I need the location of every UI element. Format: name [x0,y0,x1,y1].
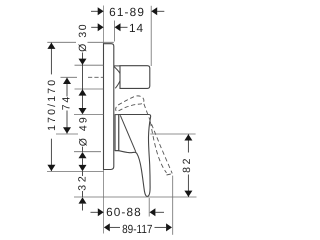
top extension line (dashed lever grip top) [150,133,195,135]
dimension line lower segment [187,175,189,197]
right tail [121,26,128,28]
svg-text:74: 74 [60,97,72,111]
right extension line (dashed lever tip front) [172,176,174,235]
hub neck top edge [114,66,120,74]
connector line below arrow [82,158,84,166]
dashed lever tip end (swung down position) [167,174,173,175]
down arrow [63,127,71,133]
plate bottom extension line (170/170 bottom and 32 top) [47,170,104,172]
lever underside edge at base [115,150,119,152]
dimension line upper segment [66,78,68,97]
connector line [82,147,84,152]
dashed lever tip (swung up position) [116,96,144,111]
connector below text [82,191,84,197]
svg-text:Ø 49: Ø 49 [77,117,89,146]
dimension 170/170 (left) [46,43,58,172]
tail below arrow [82,204,84,211]
dimension 89-117 (bottom) [104,176,173,237]
svg-text:61-89: 61-89 [109,5,144,19]
wall line (back of escutcheon plate, also extension line for wall-referenced dims) [103,6,105,234]
svg-text:14: 14 [129,21,143,35]
right arrow [150,208,156,216]
down arrow [47,165,55,171]
up arrow [47,43,55,49]
up arrow [63,78,71,84]
svg-text:170/170: 170/170 [46,80,58,131]
dimension line upper segment [187,134,189,152]
right arrow [151,7,157,15]
bottom extension line [56,133,78,135]
right tail [155,211,164,213]
hub neck bottom edge [115,81,120,88]
hub centerline (dash) with 74-dim top extension [61,76,78,78]
left arrow [98,7,104,15]
left tail [91,211,99,213]
dimension line lower segment [66,111,68,134]
dimension 14 (top) [91,21,143,42]
svg-text:Ø 30: Ø 30 [77,24,89,52]
left tail [91,26,98,28]
dimension 74 (left) [56,78,78,134]
left line segment [110,226,120,228]
lever base bar on plate [115,115,119,151]
extension line at plate front [113,21,115,42]
escutcheon wall plate (side view) [104,44,114,170]
left arrow [98,23,104,31]
bottom extension line (lever tip bottom, continuous to 82-dim) [74,196,197,198]
handle hub cylinder (side view) [120,66,150,89]
left arrow (points left) [104,223,110,231]
plate top extension line (170/170 top) [47,41,76,43]
dimension dia 49 (left column) [74,108,104,167]
lever handle (solid, closed position) [119,115,151,197]
right arrow [115,23,121,31]
connector above text [82,171,84,176]
dimension line lower segment [50,139,52,171]
dimension 61-89 (top) [91,5,164,66]
svg-text:60-88: 60-88 [106,205,141,219]
bottom extension line (lever base bottom) [74,151,101,153]
right line segment [155,226,167,228]
up arrow [184,134,192,140]
up arrow (outside below) [79,152,87,158]
left tail [91,10,98,12]
dimension 32 (left column) [74,165,197,211]
svg-text:32: 32 [77,176,89,191]
right extension line (lever tip front) [148,198,150,217]
extension line hub top (dia 30) [75,64,104,66]
down arrow (outside above, tip on 171.4 line) [79,165,87,171]
extension line at cylinder front [150,6,152,66]
svg-text:82: 82 [181,158,193,172]
up arrow (outside below) [79,197,87,203]
dashed lever outer edge (swung down position) [144,104,172,174]
extension line hub bottom (dia 30) [75,88,104,90]
right tail [157,10,164,12]
dimension dia 30 (left column) [77,24,89,109]
down arrow (outside above) [79,59,87,65]
dimension 60-88 (bottom) [91,198,165,219]
dimension line [82,53,84,110]
left arrow [98,208,104,216]
dimension 82 (right) [150,134,195,197]
top extension line (lever top) [74,114,104,116]
up arrow (outside below) [79,89,87,95]
down arrow [184,191,192,197]
right arrow (points right) [166,223,172,231]
lever inner slant edge [120,115,136,152]
down arrow (outside above) [79,108,87,114]
dimension line upper segment [50,43,52,75]
svg-text:89-117: 89-117 [122,222,152,236]
dashed lever inner edge (swung down position) [150,122,166,173]
